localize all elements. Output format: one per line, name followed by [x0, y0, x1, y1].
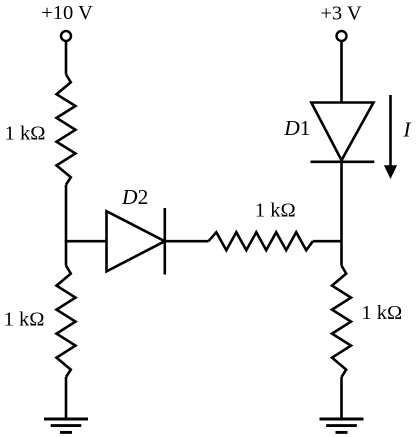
ground symbol (left) — [44, 419, 88, 432]
terminal +3 V (open circle) — [337, 31, 347, 41]
current arrow I — [384, 95, 397, 179]
wire: R2 bottom to ground (left) — [65, 377, 68, 419]
wire: R3 to node B — [313, 240, 342, 243]
svg-text:+3 V: +3 V — [320, 3, 362, 25]
wire: D2 cathode to R3 — [165, 240, 209, 243]
diode D1 (pointing down) — [311, 103, 373, 161]
wire: node A to D2 anode — [65, 240, 107, 243]
svg-text:1 kΩ: 1 kΩ — [361, 302, 402, 324]
svg-text:1 kΩ: 1 kΩ — [255, 200, 296, 222]
resistor R2 1 kOhm (lower left) — [57, 266, 76, 377]
diode D1 cathode bar — [311, 161, 375, 164]
wire: +3V terminal to D1 anode — [340, 41, 343, 103]
svg-text:1 kΩ: 1 kΩ — [4, 309, 45, 331]
ground symbol (right) — [320, 419, 364, 432]
svg-text:I: I — [402, 118, 411, 142]
wire: R1 bottom to node A — [65, 185, 68, 242]
svg-text:D2: D2 — [121, 185, 148, 209]
wire: +10V terminal to R1 top — [65, 41, 68, 74]
wire: R4 bottom to ground (right) — [340, 377, 343, 419]
svg-text:1 kΩ: 1 kΩ — [5, 123, 46, 145]
wire: D1 cathode to node B — [340, 162, 343, 241]
diode D2 cathode bar — [164, 208, 167, 275]
terminal +10 V (open circle) — [61, 31, 71, 41]
resistor R3 1 kOhm (horizontal) — [209, 232, 313, 250]
svg-text:D1: D1 — [283, 116, 310, 140]
resistor R4 1 kOhm (lower right) — [332, 266, 351, 377]
wire: node B down to R4 top — [340, 241, 343, 265]
resistor R1 1 kOhm (upper left) — [57, 74, 76, 184]
wire: node A down to R2 top — [65, 241, 68, 265]
diode D2 (pointing right) — [107, 211, 165, 271]
svg-text:+10 V: +10 V — [41, 2, 93, 24]
